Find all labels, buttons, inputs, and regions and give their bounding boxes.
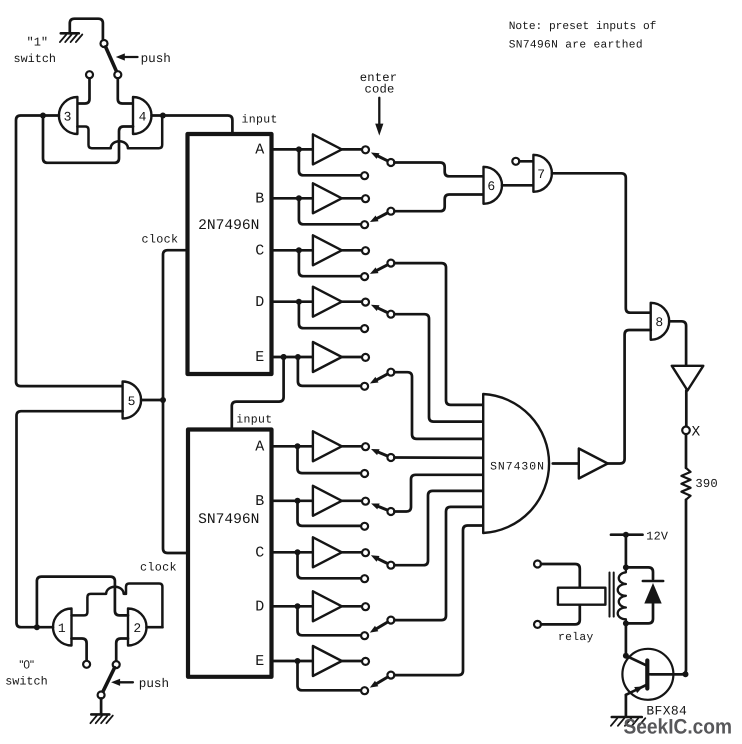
node junction B1 (296, 195, 302, 201)
contact gate 7 unused input (512, 158, 519, 165)
nand gate U3 SN7430N (483, 394, 549, 533)
wire ground to "1" switch pivot (70, 19, 103, 40)
switch wiper arm A1 (371, 153, 387, 161)
label enter code (360, 71, 398, 96)
svg-text:relay: relay (558, 631, 594, 644)
wire register output D1 (272, 300, 313, 303)
svg-text:B: B (255, 493, 264, 510)
relay contact upper (534, 561, 541, 568)
node junction E2 (295, 658, 301, 664)
pin labels A-E U2 (255, 439, 264, 671)
transistor Q1 collector lead (626, 656, 646, 666)
wire register output E2 (272, 660, 313, 663)
wire gate 2 input to "0" switch contact (116, 639, 128, 662)
svg-text:push: push (139, 677, 169, 691)
buffer A2 (313, 431, 342, 461)
contact D2 buffered (362, 603, 369, 610)
svg-text:B: B (255, 191, 264, 208)
wire gate 5 lower input to gate 1 output (17, 411, 123, 627)
switch wiper arm E2 (370, 677, 388, 688)
wire gate 7 output to gate 8 input (552, 173, 651, 312)
wire buffer C2 output (342, 551, 362, 554)
wire register output B2 (272, 499, 313, 502)
wire resistor to transistor base (651, 500, 686, 675)
node junction A2 (295, 443, 301, 449)
wire buffer A1 output (342, 148, 362, 151)
contact D1 buffered (362, 299, 369, 306)
wire switch contact to gate 3 input (77, 78, 89, 103)
relay core (610, 573, 614, 617)
wire A2 direct tap (298, 446, 362, 473)
wire A1 direct tap (299, 149, 361, 175)
transistor Q1 base bar (645, 661, 649, 689)
nand gate 7 (533, 155, 552, 192)
switch wiper contact C2 (387, 562, 394, 569)
wire transistor base to resistor node (647, 673, 685, 676)
wire register output B1 (272, 197, 313, 200)
buffer E2 (313, 646, 342, 676)
"1" switch fixed contact (86, 71, 93, 78)
contact A2 buffered (362, 443, 369, 450)
switch wiper contact E1 (387, 369, 394, 376)
switch wiper contact A2 (387, 454, 394, 461)
wire buffer B1 output (342, 197, 362, 200)
svg-text:5: 5 (128, 394, 136, 409)
buffer after SN7430N (579, 449, 608, 479)
wire buffer B2 output (342, 499, 362, 502)
node junction B2 (295, 498, 301, 504)
ground (top "1" switch) (60, 33, 82, 42)
node collector junction (623, 653, 629, 659)
wire gate 1 input to "0" switch contact (72, 639, 87, 661)
wire B2 direct tap (298, 501, 362, 526)
switch wiper contact C1 (387, 260, 394, 267)
switch wiper arm D2 (370, 622, 388, 633)
svg-text:C: C (255, 545, 264, 562)
buffer D1 (313, 287, 342, 317)
svg-text:clock: clock (140, 560, 177, 574)
label X (692, 424, 701, 440)
wire buffer D2 output (342, 605, 362, 608)
wire route B2 (394, 475, 483, 512)
wire diode to coil bottom (626, 604, 653, 624)
wire gate 4 output (152, 114, 163, 117)
ground (transistor emitter) (611, 717, 645, 726)
push arrow (top) (116, 53, 138, 60)
svg-text:clock: clock (142, 233, 179, 247)
label relay (558, 631, 594, 644)
wire route E1 (394, 372, 483, 439)
wire C1 direct tap (299, 250, 361, 276)
relay contact lower (534, 621, 541, 628)
contact E2 buffered (362, 658, 369, 665)
wire inverter to node X (685, 391, 688, 427)
nand gate 3 (59, 97, 77, 134)
wire coil bottom to transistor collector (625, 623, 628, 655)
contact B1 buffered (362, 195, 369, 202)
"1" switch pivot contact (101, 40, 108, 47)
contact B2 direct (361, 523, 368, 530)
wire gate 5 output (141, 399, 163, 402)
relay armature box (558, 588, 606, 605)
nand gate 8 (651, 303, 670, 340)
wire cross-couple gate 4 input to gate 3 output (43, 118, 133, 163)
svg-text:12V: 12V (646, 529, 669, 543)
label 390 (695, 477, 718, 491)
enter code arrow (375, 98, 383, 136)
svg-text:390: 390 (695, 477, 718, 491)
svg-text:6: 6 (487, 179, 495, 194)
contact C1 direct (361, 273, 368, 280)
wire gate 7 input (519, 160, 533, 163)
node junction E1 (281, 354, 301, 360)
node junction C2 (295, 549, 301, 555)
wire gate 3 output down to gate 5 input (16, 116, 123, 387)
svg-text:E: E (255, 349, 264, 366)
wire gate 6 output to gate 7 (502, 184, 533, 187)
wire clock line (gate 5 output to both registers) (163, 250, 188, 553)
wire route E2 (394, 526, 483, 676)
node junction D1 (296, 299, 302, 305)
svg-text:X: X (692, 424, 701, 440)
contact A2 direct (361, 470, 368, 477)
label 12V (646, 529, 669, 543)
shift register U2 SN7496N (188, 430, 272, 677)
wire relay contact lower (541, 605, 580, 625)
switch wiper contact B2 (387, 508, 394, 515)
wire emitter to ground (625, 695, 628, 717)
svg-text:SN7430N: SN7430N (490, 462, 545, 474)
node junction D2 (295, 603, 301, 609)
wire register output A1 (272, 148, 313, 151)
contact A1 direct (361, 172, 368, 179)
wire register output C1 (272, 249, 313, 252)
wire register output E1 (272, 356, 313, 359)
"0" switch fixed contact (83, 661, 90, 668)
svg-text:2N7496N: 2N7496N (198, 218, 259, 234)
"0" switch pivot contact (98, 692, 105, 699)
svg-text:3: 3 (64, 109, 72, 124)
switch wiper arm D1 (371, 305, 387, 313)
wire register output C2 (272, 551, 313, 554)
wire gate 2 output (147, 626, 163, 629)
transistor Q1 emitter lead with arrow (626, 685, 647, 695)
wire register output D2 (272, 605, 313, 608)
wire register output A2 (272, 445, 313, 448)
node junction A1 (296, 146, 302, 152)
wire E2 direct tap (298, 661, 362, 690)
wire "0" switch pivot to ground (100, 698, 103, 714)
contact E2 direct (361, 687, 368, 694)
wire node X to resistor (685, 434, 688, 468)
node junction C1 (296, 247, 302, 253)
wire buffer E1 output (342, 356, 362, 359)
svg-text:SeekIC.com: SeekIC.com (624, 716, 733, 739)
switch wiper arm C1 (370, 265, 387, 274)
node coil top junction (623, 564, 629, 570)
svg-text:A: A (255, 142, 264, 159)
svg-text:input: input (236, 414, 272, 427)
svg-text:8: 8 (655, 315, 663, 330)
wire 12V to relay coil (625, 535, 628, 568)
wire gate 8 output to inverter (669, 321, 686, 366)
switch wiper arm B2 (371, 504, 387, 511)
wire gate 4 output to register input (163, 116, 233, 136)
switch wiper contact E2 (387, 672, 394, 679)
wire B1 direct tap (299, 198, 361, 224)
nand gate 6 (484, 167, 503, 204)
node coil bottom junction (623, 620, 629, 626)
wire relay contact upper (541, 564, 580, 588)
wire cross-couple gate 3 input to gate 4 output (with hop) (77, 118, 162, 148)
label BFX84 (646, 703, 687, 718)
wire route D1 (394, 314, 483, 421)
"1" switch moving contact (114, 71, 121, 78)
wire D1 direct tap (299, 302, 361, 329)
diode (flyback) (643, 581, 663, 604)
buffer C1 (313, 235, 342, 265)
svg-text:SN7496N: SN7496N (198, 512, 259, 528)
wire SN7430N output to buffer (553, 462, 579, 465)
contact C2 direct (361, 575, 368, 582)
wire cross-couple gate 2 output to gate 1 input (with hop) (72, 584, 163, 628)
svg-text:4: 4 (139, 109, 147, 124)
pin labels A-E U1 (255, 142, 264, 367)
contact D1 direct (361, 325, 368, 332)
label input (bottom register) (236, 414, 272, 427)
push arrow (bottom) (111, 679, 133, 686)
buffer B2 (313, 486, 342, 516)
svg-text:Note: preset inputs of: Note: preset inputs of (509, 20, 657, 33)
wire route C1 (394, 263, 483, 405)
switch wiper arm A2 (371, 449, 387, 456)
wire buffer to gate 8 input (608, 330, 651, 464)
wire route B1 (394, 195, 483, 212)
switch wiper contact B1 (387, 208, 394, 215)
wire C2 direct tap (298, 552, 362, 578)
contact B2 buffered (362, 498, 369, 505)
label "0" switch (5, 658, 47, 689)
wire coil top to diode (626, 567, 653, 579)
svg-text:C: C (255, 243, 264, 260)
contact B1 direct (361, 221, 368, 228)
svg-text:7: 7 (537, 167, 545, 182)
wire route A2 (394, 456, 483, 459)
label input (top register) (242, 114, 278, 127)
wire buffer D1 output (342, 300, 362, 303)
svg-text:SN7496N are earthed: SN7496N are earthed (509, 39, 643, 52)
wire register 1 E output to register 2 input (232, 357, 284, 430)
buffer D2 (313, 591, 342, 621)
label clock (bottom) (140, 560, 177, 574)
svg-text:D: D (255, 599, 264, 616)
label push (top) (141, 52, 171, 66)
svg-text:switch: switch (5, 675, 47, 689)
relay coil (618, 567, 626, 623)
contact C2 buffered (362, 549, 369, 556)
wire route D2 (394, 507, 483, 620)
contact E1 buffered (362, 354, 369, 361)
node gate 4 output junction (160, 113, 166, 119)
svg-text:A: A (255, 439, 264, 456)
label "1" switch (14, 36, 56, 67)
switch wiper contact A1 (387, 159, 394, 166)
label push (bottom) (139, 677, 169, 691)
svg-text:"1": "1" (27, 36, 49, 50)
contact D2 direct (361, 632, 368, 639)
buffer E1 (313, 342, 342, 372)
wire gate 3 output (43, 114, 59, 117)
svg-text:push: push (141, 52, 171, 66)
wire D2 direct tap (298, 606, 362, 635)
wire route A1 (394, 163, 483, 177)
node gate 5 output junction (160, 397, 166, 403)
wire buffer C1 output (342, 249, 362, 252)
switch wiper arm C2 (371, 555, 387, 563)
wire gate 1 output (37, 626, 53, 629)
nand gate 2 (128, 609, 147, 646)
node base junction (683, 671, 689, 677)
svg-text:D: D (255, 294, 264, 311)
svg-text:E: E (255, 653, 264, 670)
svg-text:"0": "0" (19, 658, 34, 672)
svg-text:2: 2 (133, 621, 141, 636)
contact A1 buffered (362, 146, 369, 153)
nand gate 1 (53, 609, 71, 646)
wire switch contact to gate 4 input (118, 78, 133, 103)
label clock (top) (142, 233, 179, 247)
contact E1 direct (361, 383, 368, 390)
nand gate 5 (123, 382, 142, 419)
wire E1 direct tap (298, 357, 361, 386)
buffer A1 (313, 134, 342, 164)
resistor 390 (681, 468, 690, 500)
node gate 3 output junction (40, 113, 46, 119)
"0" switch moving contact (113, 661, 120, 668)
node gate 1 output junction (34, 624, 40, 630)
svg-text:input: input (242, 114, 278, 127)
"1" switch blade (106, 47, 117, 71)
note text (509, 20, 657, 52)
node X test point (682, 427, 690, 435)
transistor Q1 circle (622, 649, 673, 700)
watermark SeekIC.com (624, 716, 733, 739)
wire route C2 (394, 491, 483, 565)
shift register U1 2N7496N (188, 134, 272, 374)
"0" switch blade (103, 668, 115, 692)
buffer C2 (313, 537, 342, 567)
nand gate 4 (133, 97, 152, 134)
switch wiper contact D2 (387, 617, 394, 624)
wire cross-couple gate 1 output to gate 2 input (37, 577, 128, 628)
buffer B1 (313, 183, 342, 213)
switch wiper arm B1 (370, 213, 387, 222)
wire buffer E2 output (342, 660, 362, 663)
inverter (down) after gate 8 (672, 366, 704, 391)
switch wiper arm E1 (370, 374, 388, 383)
switch wiper contact D1 (387, 311, 394, 318)
svg-text:code: code (364, 82, 394, 96)
svg-text:1: 1 (58, 621, 66, 636)
ground (bottom "0" switch) (90, 714, 112, 723)
svg-text:switch: switch (14, 52, 56, 66)
wire buffer A2 output (342, 445, 362, 448)
contact C1 buffered (362, 247, 369, 254)
supply rail 12V (611, 532, 643, 538)
